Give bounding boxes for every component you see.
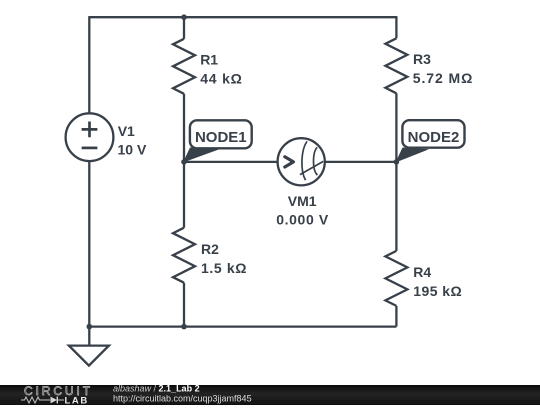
svg-text:VM1: VM1 (288, 193, 317, 209)
wire right branch between NODE2 and R4 (395, 162, 397, 251)
CircuitLab logo resistor zigzag (21, 397, 50, 403)
resistor R3 (385, 38, 407, 93)
svg-text:NODE2: NODE2 (408, 129, 460, 146)
label R3 5.72 MOhm (413, 51, 473, 86)
resistor R4 (385, 251, 407, 306)
wire middle branch bottom lead (183, 283, 185, 327)
wire right branch top lead (395, 16, 397, 38)
svg-text:R3: R3 (413, 51, 431, 67)
svg-text:44 kΩ: 44 kΩ (200, 70, 242, 86)
CircuitLab logo diode (51, 397, 65, 404)
CircuitLab logo LAB (65, 395, 89, 406)
voltage source V1 (66, 113, 114, 161)
wire middle branch between R1 and NODE1 (183, 94, 185, 162)
svg-text:R4: R4 (413, 264, 431, 280)
svg-text:http://circuitlab.com/cuqp3jja: http://circuitlab.com/cuqp3jjamf845 (113, 394, 252, 404)
wire right branch bottom lead (395, 306, 397, 327)
junction dot NODE2 (394, 159, 400, 165)
svg-text:NODE1: NODE1 (195, 129, 247, 146)
label R1 44 kOhm (200, 51, 242, 86)
svg-text:R1: R1 (200, 51, 218, 67)
node NODE2 callout tail (396, 148, 430, 163)
label R4 195 kOhm (413, 264, 461, 299)
node NODE1 callout box (190, 120, 252, 148)
footer bar (0, 385, 540, 405)
wire ground lead (88, 327, 90, 346)
node NODE1 callout tail (183, 148, 220, 163)
node NODE2 callout box (402, 120, 464, 148)
svg-text:0.000 V: 0.000 V (276, 211, 329, 227)
svg-text:V1: V1 (118, 123, 135, 139)
footer attribution line 1 (113, 384, 200, 394)
wire top rail (89, 16, 396, 18)
wire middle branch top lead (183, 17, 185, 39)
svg-text:R2: R2 (201, 241, 219, 257)
svg-text:albashaw / 2.1_Lab 2: albashaw / 2.1_Lab 2 (113, 384, 200, 394)
wire voltmeter to NODE2 (325, 161, 397, 163)
junction dot bottom left (87, 324, 93, 330)
label VM1 0.000 V (276, 193, 329, 228)
svg-text:5.72 MΩ: 5.72 MΩ (413, 70, 473, 86)
wire left branch upper (88, 16, 90, 113)
label V1 10 V (118, 123, 147, 158)
wire right branch between R3 and NODE2 (395, 93, 397, 162)
wire middle branch between NODE1 and R2 (183, 162, 185, 228)
junction dot top rail (181, 14, 187, 20)
wire left branch lower (88, 161, 90, 327)
label R2 1.5 kOhm (201, 241, 247, 276)
voltmeter VM1 (278, 138, 325, 185)
svg-text:195 kΩ: 195 kΩ (413, 283, 461, 299)
wire bottom rail (89, 325, 396, 327)
svg-text:LAB: LAB (65, 395, 89, 405)
ground (69, 346, 109, 366)
footer attribution line 2 (113, 394, 252, 404)
CircuitLab logo CIRCUIT (24, 384, 93, 398)
resistor R2 (173, 228, 195, 283)
resistor R1 (173, 39, 195, 94)
junction dot bottom middle (181, 324, 187, 330)
junction dot NODE1 (181, 159, 187, 165)
svg-text:10 V: 10 V (118, 142, 147, 158)
wire NODE1 to voltmeter (184, 161, 278, 163)
svg-text:1.5 kΩ: 1.5 kΩ (201, 260, 247, 276)
